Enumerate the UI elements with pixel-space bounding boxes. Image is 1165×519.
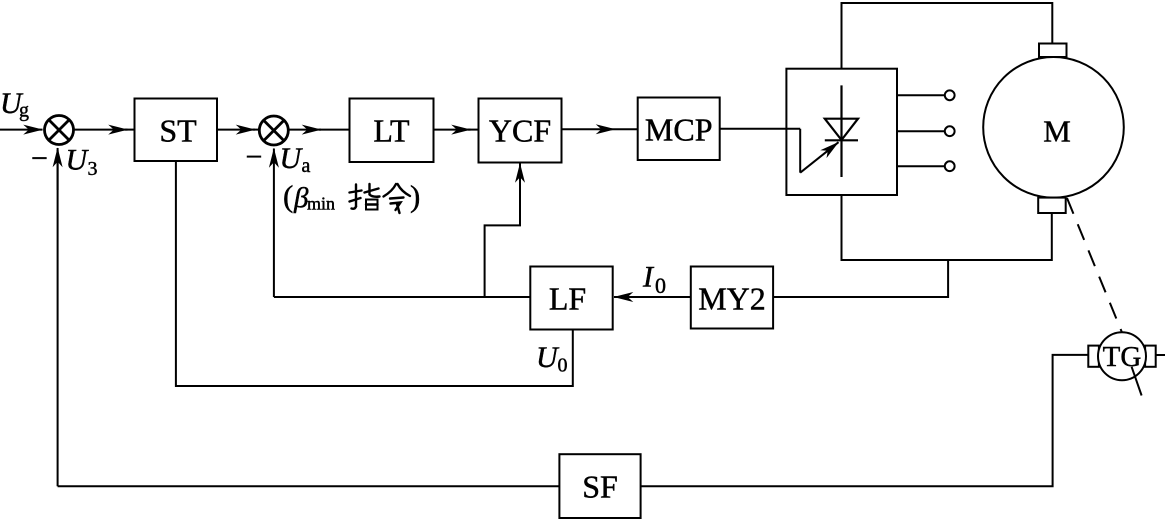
svg-text:U: U <box>536 341 560 374</box>
svg-text:LT: LT <box>373 112 410 148</box>
svg-text:−: − <box>246 141 263 174</box>
wire converter to output terminal 1 <box>897 94 945 96</box>
hand-drawn hanzi ling (令) <box>384 184 411 213</box>
block MY2 <box>691 267 773 329</box>
wire input Ug to summing junction <box>0 129 43 131</box>
svg-text:U: U <box>66 144 90 177</box>
wire converter to output terminal 3 <box>897 165 945 167</box>
svg-text:g: g <box>19 100 29 122</box>
block ST <box>135 99 218 162</box>
wire S1 to ST <box>74 129 128 131</box>
wire branch up to YCF with step <box>485 167 520 298</box>
motor top brush terminal <box>1039 44 1067 58</box>
wire ST to summing junction S2 <box>217 129 255 131</box>
tachogenerator TG right brush <box>1145 346 1156 367</box>
label U3 <box>66 144 98 181</box>
label Ug <box>0 87 29 122</box>
terminal circle 1 <box>945 90 955 100</box>
wire S2 to LT <box>288 129 321 131</box>
svg-text:0: 0 <box>558 355 568 377</box>
block LF <box>530 267 612 330</box>
hand-drawn hanzi zhi (指) <box>350 184 380 210</box>
svg-text:min: min <box>307 194 335 214</box>
node summing junction S2 <box>259 116 288 145</box>
svg-text:−: − <box>31 142 48 175</box>
svg-text:YCF: YCF <box>489 113 551 149</box>
label U0 <box>536 341 568 377</box>
wire LT to YCF <box>434 129 471 131</box>
svg-text:I: I <box>642 261 655 294</box>
wire SF line left segment <box>58 485 560 487</box>
dashed shaft line segment below TG <box>1132 367 1142 396</box>
tachogenerator TG circle <box>1098 332 1146 380</box>
svg-text:(: ( <box>283 179 293 214</box>
wire current tap down to MY2 line <box>773 260 948 297</box>
motor M circle <box>983 57 1124 198</box>
svg-text:ST: ST <box>159 112 197 148</box>
block SF <box>559 454 640 518</box>
svg-text:U: U <box>280 142 304 175</box>
svg-text:3: 3 <box>88 158 98 180</box>
wire SF line right segment to TG <box>641 355 1089 486</box>
svg-text:TG: TG <box>1103 341 1142 373</box>
svg-text:SF: SF <box>582 469 618 505</box>
wire TG right to edge <box>1156 354 1165 356</box>
wire MCP to converter <box>720 128 801 130</box>
svg-text:MY2: MY2 <box>698 280 766 316</box>
terminal circle 3 <box>945 161 955 171</box>
node summing junction S1 <box>45 116 74 145</box>
wire LF output to left toward S2 <box>274 296 530 298</box>
label beta-min command <box>283 179 420 215</box>
svg-text:M: M <box>1043 113 1071 148</box>
svg-text:0: 0 <box>655 273 666 298</box>
svg-text:LF: LF <box>549 280 586 316</box>
svg-text:MCP: MCP <box>645 111 713 147</box>
motor bottom brush terminal <box>1038 198 1066 213</box>
block YCF <box>479 99 562 163</box>
wire S1 feedback from SF line up into S1 <box>57 150 59 486</box>
block LT <box>350 99 434 163</box>
wire converter bottom to motor bottom <box>842 195 1052 260</box>
svg-text:): ) <box>410 179 420 214</box>
wire converter to output terminal 2 <box>897 130 945 132</box>
label I0 <box>642 261 666 299</box>
thyristor symbol inside converter <box>825 85 858 177</box>
wire YCF to MCP <box>562 128 638 130</box>
terminal circle 2 <box>945 126 955 136</box>
dashed shaft line motor to TG <box>1067 198 1122 333</box>
wire converter top to motor top <box>842 3 1053 69</box>
converter block (thyristor rectifier) <box>786 69 897 195</box>
tachogenerator TG left brush <box>1088 346 1099 367</box>
wire LF bottom U0 to ST bottom <box>176 161 573 386</box>
label Ua <box>280 142 311 177</box>
svg-text:a: a <box>302 155 311 177</box>
wire feedback up into S2 <box>273 149 275 298</box>
thyristor gate firing wire with arrow <box>800 129 838 173</box>
block MCP <box>638 98 720 161</box>
wire MY2 to LF with I0 arrow <box>614 296 691 298</box>
